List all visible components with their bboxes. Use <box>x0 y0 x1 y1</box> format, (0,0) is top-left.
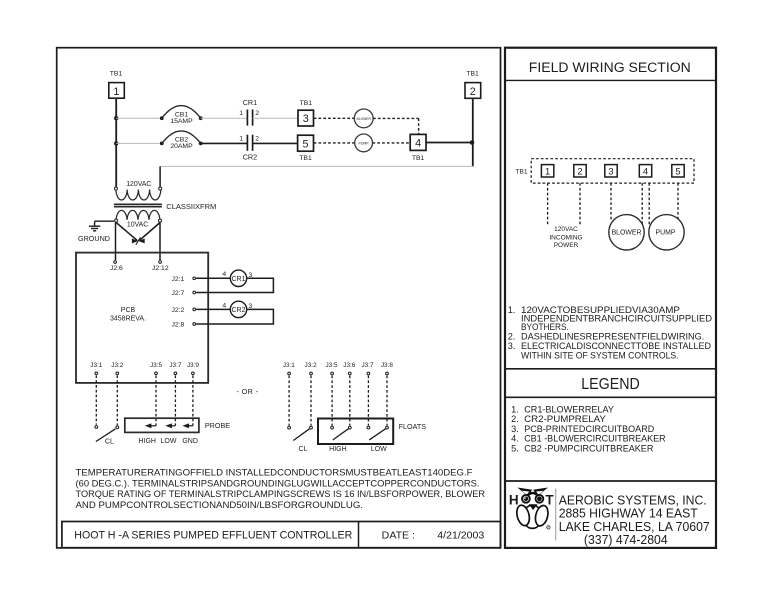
dashed wire terminal 1 to incoming power <box>547 183 549 225</box>
terminal strip TB1 (field side) <box>515 159 694 183</box>
svg-text:R: R <box>547 526 549 530</box>
wire secondary left to J2:6 <box>115 223 117 261</box>
svg-text:1: 1 <box>239 110 243 117</box>
floats assembly box <box>318 419 393 445</box>
pin J2:12 <box>159 261 162 264</box>
terminal 4 (field) <box>639 165 651 177</box>
wire CB1 to CR1 contact <box>201 117 248 119</box>
svg-text:J3:8: J3:8 <box>381 362 394 369</box>
relay coil CR2 <box>222 301 252 317</box>
svg-text:(60 DEG.C.). TERMINALSTRIPSAN: (60 DEG.C.). TERMINALSTRIPSANDGROUNDINGL… <box>76 478 480 488</box>
svg-text:AND PUMPCONTROLSECTIONAND50IN/: AND PUMPCONTROLSECTIONAND50IN/LBSFORGROU… <box>76 500 364 510</box>
svg-text:4/21/2003: 4/21/2003 <box>437 531 484 542</box>
svg-text:J2:8: J2:8 <box>171 322 184 329</box>
pump motor symbol (row2) <box>355 134 373 152</box>
svg-text:J3:2: J3:2 <box>111 362 124 369</box>
terminal 2 (field) <box>574 165 586 177</box>
svg-text:3.: 3. <box>511 424 519 434</box>
svg-text:4.: 4. <box>511 434 519 444</box>
svg-text:1: 1 <box>113 86 119 98</box>
svg-text:ELECTRICALDISCONNECTTOBE INSTA: ELECTRICALDISCONNECTTOBE INSTALLED <box>521 341 711 351</box>
svg-text:POWER: POWER <box>554 242 579 249</box>
dashed wire terminal 2 to incoming power <box>579 183 581 225</box>
owl eye left (letter O) <box>522 495 530 503</box>
svg-text:HIGH: HIGH <box>329 446 347 453</box>
probe electrode GND arrow <box>182 423 193 428</box>
terminal 5 (field) <box>672 165 684 177</box>
svg-text:1.: 1. <box>511 404 519 414</box>
dashed wire J3:9 to probe <box>192 375 194 425</box>
svg-text:PCB-PRINTEDCIRCUITBOARD: PCB-PRINTEDCIRCUITBOARD <box>524 424 654 434</box>
HOOT owl logo <box>509 488 555 530</box>
PCB 3458REVA board <box>76 253 208 383</box>
svg-text:5: 5 <box>675 165 680 176</box>
main drawing frame <box>57 48 501 548</box>
pump load circle <box>649 215 684 250</box>
dashed wire J3:2 to CL float <box>310 376 312 426</box>
svg-text:J3:1: J3:1 <box>283 362 296 369</box>
svg-text:GROUND: GROUND <box>78 234 110 243</box>
svg-text:3: 3 <box>608 165 613 176</box>
wire secondary right to J2:12 <box>159 223 161 261</box>
junction node row2 <box>114 141 118 145</box>
wire down to primary right terminal <box>159 166 161 187</box>
company logo box <box>505 480 716 482</box>
svg-text:TEMPERATURERATINGOFFIELD INSTA: TEMPERATURERATINGOFFIELD INSTALLEDCONDUC… <box>76 468 473 478</box>
svg-text:4: 4 <box>222 302 226 309</box>
relay contact CR2 <box>239 135 259 162</box>
probe electrode HIGH arrow <box>145 423 156 428</box>
wire TB1-1 to transformer primary left <box>115 98 117 187</box>
svg-text:J3:5: J3:5 <box>150 362 163 369</box>
field wiring notes <box>508 305 713 361</box>
incoming power label <box>549 226 582 249</box>
svg-text:LEGEND: LEGEND <box>581 376 640 393</box>
svg-text:4: 4 <box>415 138 421 150</box>
svg-text:4: 4 <box>643 165 648 176</box>
registered mark <box>547 526 550 529</box>
dashed wire J3:1 to CL float <box>288 376 290 426</box>
svg-text:FIELD WIRING SECTION: FIELD WIRING SECTION <box>529 60 691 76</box>
blower motor symbol (row1) <box>354 109 373 128</box>
probe assembly box <box>125 418 199 432</box>
transformer T1 primary winding <box>114 187 161 200</box>
dashed wire J3:7 to probe <box>174 375 176 425</box>
legend items <box>511 404 666 453</box>
company address <box>559 493 710 547</box>
svg-text:TB1: TB1 <box>110 71 123 78</box>
svg-text:CB2 -PUMPCIRCUITBREAKER: CB2 -PUMPCIRCUITBREAKER <box>524 443 654 453</box>
svg-text:J3:6: J3:6 <box>343 362 356 369</box>
owl body <box>523 505 542 528</box>
terminal 1 (field) <box>541 165 553 177</box>
transformer T1 secondary winding <box>115 210 162 222</box>
owl ears <box>517 488 532 497</box>
svg-text:J3:7: J3:7 <box>361 362 374 369</box>
svg-text:3458REVA.: 3458REVA. <box>110 315 146 322</box>
svg-text:CL: CL <box>105 439 114 446</box>
logo divider <box>555 489 557 541</box>
svg-text:TB1: TB1 <box>299 155 312 162</box>
wire horizontal to transformer primary right <box>160 165 473 167</box>
wire CB2 to CR2 contact <box>201 142 248 144</box>
relay coil CR1 <box>222 270 252 286</box>
dashed field wire TB1-3 to blower <box>314 117 355 119</box>
dashed wire J3:1 to CL switch <box>95 375 97 424</box>
svg-text:2.: 2. <box>511 414 519 424</box>
svg-text:CR1: CR1 <box>243 98 257 107</box>
owl eye right (letter O) <box>536 495 544 503</box>
svg-text:CR1: CR1 <box>231 276 245 283</box>
svg-text:5.: 5. <box>511 443 519 453</box>
circuit breaker CB1 15AMP <box>160 106 203 126</box>
svg-text:FLOATS: FLOATS <box>399 422 427 431</box>
svg-text:LOW: LOW <box>371 446 387 453</box>
svg-text:TB1: TB1 <box>466 71 479 78</box>
wire J2:2 to CR2 coil <box>196 308 231 310</box>
float switch HIGH <box>329 426 351 453</box>
dashed wire J3:2 to CL switch <box>116 375 118 425</box>
terminal TB1-2 <box>465 71 481 99</box>
svg-text:INCOMING: INCOMING <box>549 235 582 242</box>
wire CR1 loop to J2:7 <box>196 278 273 292</box>
svg-text:HIGH: HIGH <box>138 438 156 445</box>
svg-text:10VAC: 10VAC <box>127 221 148 228</box>
wire row2 to CB2 <box>116 142 162 144</box>
svg-text:3.: 3. <box>508 341 516 351</box>
terminal TB1-4 <box>410 134 426 162</box>
svg-text:(337) 474-2804: (337) 474-2804 <box>584 533 668 547</box>
svg-text:CR1-BLOWERRELAY: CR1-BLOWERRELAY <box>524 404 614 414</box>
MOV / surge suppressor across secondary <box>116 223 160 245</box>
wire TB1-4 to TB1-2 drop <box>426 142 473 144</box>
svg-text:1.: 1. <box>508 305 516 315</box>
switch CL (probe option) <box>95 426 119 446</box>
svg-text:TB1: TB1 <box>300 100 313 107</box>
svg-text:- OR -: - OR - <box>237 387 259 396</box>
owl right wing <box>533 504 549 527</box>
dashed wire J3:8 to float LOW <box>386 376 388 426</box>
terminal TB1-3 <box>298 100 314 126</box>
junction node at TB1-2 drop <box>470 140 475 145</box>
svg-text:J2:7: J2:7 <box>171 290 184 297</box>
legend header <box>505 369 716 398</box>
svg-text:J2:12: J2:12 <box>152 265 169 272</box>
svg-text:DATE :: DATE : <box>382 531 415 542</box>
dashed wire terminal 5 to pump <box>677 183 679 221</box>
dashed field wire pump to TB1-4 <box>373 142 411 144</box>
svg-text:J2:1: J2:1 <box>171 276 184 283</box>
relay contact CR1 <box>239 98 259 125</box>
svg-text:PUMP: PUMP <box>359 141 370 145</box>
svg-text:CB1 -BLOWERCIRCUITBREAKER: CB1 -BLOWERCIRCUITBREAKER <box>524 434 666 444</box>
svg-text:4: 4 <box>222 271 226 278</box>
svg-text:AEROBIC SYSTEMS, INC.: AEROBIC SYSTEMS, INC. <box>559 493 707 507</box>
svg-text:J2:6: J2:6 <box>110 265 123 272</box>
svg-text:120VAC: 120VAC <box>554 226 578 233</box>
svg-text:PUMP: PUMP <box>656 230 676 237</box>
svg-text:J2:2: J2:2 <box>171 307 184 314</box>
wire J2:1 to CR1 coil <box>196 277 231 279</box>
svg-text:2885 HIGHWAY 14 EAST: 2885 HIGHWAY 14 EAST <box>559 507 698 521</box>
terminal TB1-5 <box>298 135 314 162</box>
svg-text:1: 1 <box>239 135 243 142</box>
wire CR1 to TB1-3 <box>253 117 298 119</box>
svg-text:CL: CL <box>299 446 308 453</box>
svg-text:GND: GND <box>182 438 198 445</box>
svg-text:CLASSIIXFRM: CLASSIIXFRM <box>166 202 216 211</box>
dashed field wire blower to corner <box>373 117 419 119</box>
svg-text:J3:9: J3:9 <box>187 362 200 369</box>
float switch LOW <box>367 426 388 453</box>
wire ground to secondary left <box>95 220 114 222</box>
svg-text:TORQUE RATING OF TERMINALSTRIP: TORQUE RATING OF TERMINALSTRIPCLAMPINGSC… <box>76 489 486 499</box>
pin J2:6 <box>114 261 117 264</box>
svg-text:BLOWER: BLOWER <box>612 230 642 237</box>
dashed field wire corner down to TB1-4 <box>418 118 420 134</box>
svg-text:T: T <box>545 493 554 508</box>
svg-text:H: H <box>509 493 519 508</box>
svg-text:TB1: TB1 <box>515 169 527 176</box>
svg-text:BLOWER: BLOWER <box>357 117 372 121</box>
svg-text:LAKE CHARLES, LA 70607: LAKE CHARLES, LA 70607 <box>559 520 710 534</box>
dashed wire J3:5 to float HIGH <box>331 376 333 426</box>
svg-text:2: 2 <box>470 86 476 98</box>
svg-text:WITHIN SITE OF SYSTEM CONTROLS: WITHIN SITE OF SYSTEM CONTROLS. <box>521 350 679 360</box>
wire TB1-2 down <box>472 99 474 167</box>
svg-text:20AMP: 20AMP <box>170 143 193 150</box>
dashed wire terminal 4 to blower <box>641 183 643 237</box>
wire row1 to CB1 <box>116 117 162 119</box>
svg-text:HOOT H -A SERIES PUMPED EFFLU: HOOT H -A SERIES PUMPED EFFLUENT CONTROL… <box>74 530 352 542</box>
svg-text:120VAC: 120VAC <box>126 181 151 188</box>
svg-text:3: 3 <box>303 113 309 125</box>
svg-text:5: 5 <box>302 138 308 150</box>
wire CR2 to TB1-5 <box>253 142 298 144</box>
svg-text:J3:5: J3:5 <box>325 362 338 369</box>
terminal TB1-1 <box>109 71 125 99</box>
svg-text:2: 2 <box>577 165 582 176</box>
switch CL (float option) <box>288 426 313 453</box>
svg-text:CR2-PUMPRELAY: CR2-PUMPRELAY <box>524 414 606 424</box>
svg-text:TB1: TB1 <box>412 155 425 162</box>
svg-text:1: 1 <box>545 165 550 176</box>
wire CR2 loop to J2:8 <box>196 309 273 324</box>
svg-text:CR2: CR2 <box>243 153 257 162</box>
junction node row1 <box>114 116 118 120</box>
dashed wire J3:7 to float LOW <box>367 376 369 426</box>
svg-text:2: 2 <box>255 110 259 117</box>
svg-text:15AMP: 15AMP <box>170 118 193 125</box>
svg-text:J3:7: J3:7 <box>169 362 182 369</box>
field wiring header <box>505 60 716 81</box>
svg-text:BYOTHERS.: BYOTHERS. <box>521 322 569 332</box>
field wiring section panel <box>505 48 716 548</box>
svg-text:PCB: PCB <box>121 307 136 314</box>
dashed wire J3:5 to probe <box>155 375 157 425</box>
svg-text:LOW: LOW <box>161 438 177 445</box>
ground symbol <box>78 221 110 243</box>
installation notes text <box>76 468 486 510</box>
probe electrode LOW arrow <box>165 423 175 428</box>
circuit breaker CB2 20AMP <box>160 131 203 150</box>
transformer T1 core <box>114 204 162 206</box>
terminal 3 (field) <box>605 165 617 177</box>
dashed wire J3:6 to float HIGH <box>349 376 351 426</box>
svg-text:J3:1: J3:1 <box>90 362 103 369</box>
blower load circle <box>609 215 644 250</box>
svg-text:CR2: CR2 <box>231 307 245 314</box>
dashed field wire TB1-5 to pump <box>314 142 355 144</box>
owl left wing <box>515 504 531 527</box>
svg-text:2: 2 <box>255 135 259 142</box>
title block <box>62 522 501 548</box>
svg-text:PROBE: PROBE <box>205 421 230 430</box>
owl beak <box>529 504 538 510</box>
dashed wire terminal 3 to blower <box>610 183 612 221</box>
svg-text:J3:2: J3:2 <box>305 362 318 369</box>
dashed wire terminal 4 to pump <box>648 183 650 225</box>
